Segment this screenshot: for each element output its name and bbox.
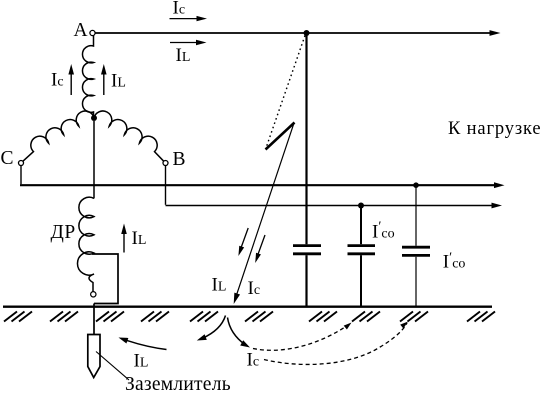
capacitor CA plates — [293, 244, 321, 247]
inductor phase B winding (diagonal to lower right) — [94, 111, 164, 161]
ground hatching — [4, 312, 495, 322]
inductor phase C winding (diagonal to lower left) — [23, 111, 94, 161]
inductor DR arc-suppression coil — [77, 197, 94, 291]
node capacitor CB tap — [358, 203, 364, 209]
wire bypass link around DR tap — [92, 254, 118, 304]
svg-text:Заземлитель: Заземлитель — [125, 374, 231, 393]
arrow IL up (right of phase A coil) — [101, 64, 107, 95]
arrow Ic up (left of phase A coil) — [68, 64, 74, 95]
node star point junction — [91, 115, 97, 121]
wire phase B to capacitor CB — [360, 206, 362, 245]
wire capacitor CC to ground — [415, 257, 417, 306]
wire capacitor CA to ground — [305, 255, 307, 306]
svg-text:ДР: ДР — [51, 222, 76, 243]
svg-text:Iс: Iс — [173, 0, 186, 19]
DR coil tap terminal circle — [91, 292, 96, 297]
svg-text:B: B — [173, 149, 186, 170]
arrow IL direction (below bus) — [170, 40, 207, 45]
svg-text:К нагрузке: К нагрузке — [448, 119, 541, 139]
node fault point on phase A bus — [304, 30, 310, 36]
arrow Ic direction (above bus) — [170, 16, 208, 21]
svg-text:C: C — [1, 148, 14, 169]
dashed ground return path to capacitor CC — [264, 323, 407, 364]
wire neutral from star point down — [93, 121, 95, 198]
wire to earth electrode — [93, 304, 95, 335]
arrowhead phase B bus end — [492, 203, 503, 209]
wire phase C to capacitor CC — [415, 185, 417, 246]
fault arc line to ground — [235, 123, 295, 301]
capacitor CC plates — [402, 246, 430, 249]
node C terminal circle — [19, 161, 24, 166]
wire capacitor CB to ground — [360, 255, 362, 306]
leader line to label — [96, 352, 129, 381]
arrowhead phase A bus end — [490, 30, 501, 36]
arrowhead phase C bus end — [494, 182, 505, 188]
wire from node C down — [20, 166, 22, 185]
node A terminal circle — [90, 30, 95, 35]
arrow IL along fault path — [238, 228, 248, 256]
fault arc dotted lead — [266, 36, 305, 149]
dashed ground return path to capacitor CB — [253, 325, 348, 350]
node B terminal circle — [163, 161, 168, 166]
ground surface line — [3, 306, 492, 308]
arrowhead fault at ground — [234, 293, 240, 304]
svg-text:A: A — [74, 20, 88, 41]
inductor phase A winding (vertical coil below node A) — [82, 36, 93, 118]
node capacitor CC tap — [413, 182, 419, 188]
curved arrow Ic right branch — [228, 318, 246, 346]
fault arc bolt stroke — [266, 123, 295, 150]
wire phase C bus — [20, 184, 494, 186]
arrow IL up (right of DR coil) — [121, 224, 127, 253]
capacitor CB plates — [348, 244, 376, 247]
wire phase A to capacitor CA — [305, 33, 307, 244]
curved arrow fault current left branch — [202, 316, 226, 339]
arrow Ic along fault path — [255, 235, 265, 263]
wire phase B bus — [166, 205, 492, 207]
wire from node B down — [165, 166, 167, 205]
earth electrode rod — [88, 335, 100, 378]
wire phase A bus — [96, 32, 491, 34]
curved arrow IL return to electrode — [124, 340, 167, 350]
